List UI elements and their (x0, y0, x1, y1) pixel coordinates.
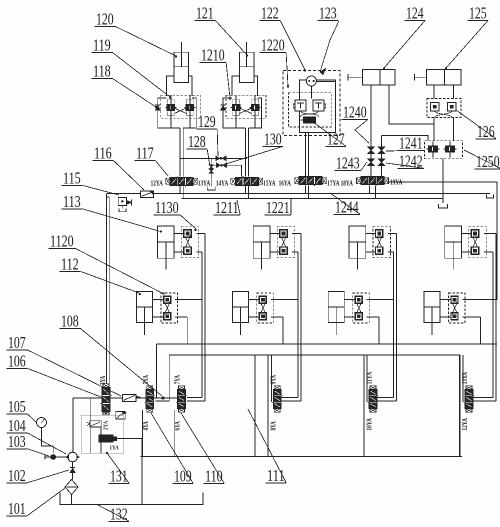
wire cylinder to pack (440, 298, 451, 300)
wire col1 valve drains (141, 410, 143, 456)
valve pack row-A col2 (277, 227, 295, 258)
wire branch to 1250 (382, 136, 429, 141)
svg-text:124: 124 (406, 4, 424, 23)
svg-text:102: 102 (8, 466, 26, 485)
wire col1 valve feeds (187, 396, 202, 398)
wire right bypass (255, 98, 262, 128)
valve pack 118 dual pilot-operated check (161, 95, 201, 118)
svg-text:9YA: 9YA (269, 375, 278, 385)
cylinder row-A col4 (445, 226, 462, 258)
solenoid valve 3YA (101, 384, 112, 416)
svg-text:1221: 1221 (266, 198, 290, 217)
svg-text:6YA: 6YA (173, 421, 182, 431)
wire col3 valve feeds (377, 396, 394, 398)
svg-text:117: 117 (136, 144, 154, 163)
wire cylinder to pack (174, 232, 184, 234)
relief valve 107 (123, 394, 136, 401)
shuttle valve (216, 156, 220, 161)
wire 126 to 1250 (433, 118, 435, 141)
svg-text:128: 128 (188, 132, 206, 151)
svg-text:17YA: 17YA (327, 178, 340, 187)
wire gauge stem (42, 428, 54, 454)
wire to valve row (381, 166, 383, 177)
rail pressure main (107, 193, 491, 195)
inner dashed pack of 122 (289, 93, 332, 127)
svg-text:121: 121 (196, 4, 214, 23)
wire valve to rails (179, 186, 181, 194)
solenoid valve 127 (304, 117, 316, 123)
svg-text:1240: 1240 (343, 103, 367, 122)
svg-text:3YA: 3YA (98, 375, 107, 385)
wire (370, 154, 372, 159)
solenoid valve 9YA/8YA (272, 386, 283, 413)
wire pack outputs (388, 232, 397, 234)
svg-text:12YA: 12YA (151, 178, 164, 187)
svg-text:120: 120 (96, 10, 114, 29)
svg-text:1220: 1220 (261, 36, 285, 55)
wire pack outputs down (170, 118, 172, 128)
solenoid valve 7YA/6YA (176, 386, 187, 413)
svg-text:1244: 1244 (335, 198, 359, 217)
wire pack outputs (271, 298, 298, 300)
svg-text:11YA: 11YA (364, 371, 373, 384)
svg-text:18YA: 18YA (341, 178, 354, 187)
valve pack row-B col2 (257, 293, 274, 323)
svg-text:16YA: 16YA (279, 178, 292, 187)
rail bottom return (141, 455, 462, 457)
shuttle valve (216, 163, 220, 168)
cylinder 120 (174, 52, 188, 82)
wire bypass with check valve (158, 98, 171, 128)
shut-off valve 1241 (378, 147, 385, 154)
cylinder row-A col3 (349, 226, 366, 258)
valve pack row-A col1 (1130) (181, 227, 199, 258)
wire cylinder to pack (366, 232, 376, 234)
wire 125 ports down (433, 85, 435, 99)
wire col3 valve drains (363, 355, 365, 456)
cylinder row-B col3 (328, 292, 344, 323)
wire branch line 1241/1242 (381, 136, 383, 148)
svg-text:118: 118 (93, 62, 111, 81)
wire rail1 left end down to 5YA valve (156, 344, 158, 398)
wire pack outputs down (235, 118, 237, 128)
solenoid valve 13YA/12YA (464, 386, 475, 413)
tank drain (439, 204, 448, 208)
svg-text:1250: 1250 (476, 152, 500, 171)
wire 115 drain (121, 206, 123, 209)
wire col2 valve feeds (281, 396, 298, 398)
solenoid block 1YA (99, 435, 113, 442)
svg-text:1210: 1210 (201, 46, 225, 65)
cylinder row-A col1 (113) (157, 226, 174, 258)
svg-text:12YA: 12YA (460, 418, 469, 431)
wire feeders down (204, 233, 206, 400)
motor 103 (50, 454, 56, 460)
wire filter to tank (71, 495, 73, 505)
wire 124 left port down (370, 85, 372, 147)
shut-off valve 1242 (378, 159, 385, 166)
valve pack row-A col3 (373, 227, 391, 258)
solenoid valve 5YA/4YA (144, 386, 155, 413)
check valve (221, 106, 226, 111)
hand pump 123 circle (306, 76, 316, 86)
wire pack outputs (462, 298, 493, 300)
filter 101 (65, 480, 78, 495)
wire cylinder to pack (248, 298, 259, 300)
rail mid 2 (169, 354, 460, 356)
wire 3YA to 2YA (105, 411, 107, 415)
wire pump outlet (316, 80, 335, 82)
wire motor shaft (56, 456, 67, 458)
svg-text:15YA: 15YA (263, 178, 276, 187)
shut-off valve 1243 (368, 159, 375, 166)
wire col4 valve feeds (473, 396, 493, 398)
check valve (155, 106, 160, 111)
wire 2YA down (100, 427, 102, 453)
wire rail2 left end down to 5YA valve (155, 355, 169, 401)
valve pack row-B col4 (448, 293, 465, 323)
wire right bypass (190, 98, 197, 128)
wire left main down (106, 194, 108, 388)
wire cylinder to pack (462, 232, 472, 234)
wire cylinder ports (167, 76, 175, 96)
cylinder 125 (427, 69, 462, 85)
wire valve to rails (244, 186, 246, 194)
wire pack outputs (196, 232, 205, 234)
wire crossing lines (301, 111, 319, 118)
wire 1YA drain to tank (117, 439, 142, 505)
wire valve to rails (305, 185, 307, 193)
flow control valve 116 (141, 191, 154, 198)
wire feeders down (300, 233, 302, 400)
wire box right edge (459, 355, 461, 456)
svg-text:106: 106 (8, 352, 26, 371)
svg-text:116: 116 (94, 144, 112, 163)
svg-text:1243: 1243 (336, 154, 360, 173)
svg-text:1211: 1211 (215, 198, 239, 217)
pilot valve 2YA (90, 421, 102, 427)
pilot check valve left (295, 100, 306, 111)
wire pack outputs (484, 232, 496, 234)
svg-text:123: 123 (319, 4, 337, 23)
solenoid valve 12YA/13YA (166, 178, 171, 184)
svg-text:1YA: 1YA (110, 446, 120, 452)
node junction 108 (162, 397, 165, 400)
rail return main (182, 198, 444, 200)
svg-text:103: 103 (8, 432, 26, 451)
relief valve 115 (118, 197, 126, 205)
wire pump down into block (310, 86, 312, 99)
tank drain right end (487, 195, 494, 198)
solenoid valve 16YA/17YA (295, 178, 300, 184)
svg-text:107: 107 (8, 333, 26, 352)
valve pack 1210 dual pilot-operated check (226, 95, 266, 118)
wire line 129 (180, 157, 248, 159)
wire 19YA output right (388, 182, 498, 299)
wire pack outputs (175, 298, 202, 300)
valve pack 1250 (425, 141, 463, 159)
node leader dots (175, 55, 177, 57)
shut-off valve 1240 (368, 147, 375, 154)
wire to valve row (370, 166, 372, 177)
wire col2 valve drains (267, 355, 269, 456)
manifold block 122 (299, 80, 335, 133)
enclosure 131 box (81, 415, 124, 453)
wire feeders down (396, 233, 398, 400)
svg-text:115: 115 (63, 169, 81, 188)
svg-text:8YA: 8YA (269, 421, 278, 431)
svg-text:13YA: 13YA (460, 371, 469, 384)
wire pack outputs (292, 232, 301, 234)
cylinder row-A col2 (253, 226, 270, 258)
svg-text:112: 112 (61, 255, 79, 274)
svg-text:113: 113 (63, 192, 81, 211)
wire col4 valve drains (459, 355, 461, 456)
svg-text:132: 132 (110, 505, 128, 524)
solenoid valve 11YA/10YA (368, 386, 379, 413)
svg-text:1130: 1130 (155, 198, 179, 217)
valve pack 126 dual check (427, 99, 461, 118)
valve pack row-B col3 (353, 293, 370, 323)
svg-text:105: 105 (8, 397, 26, 416)
svg-text:10YA: 10YA (364, 418, 373, 431)
cylinder row-B col1 (112) (137, 292, 153, 323)
svg-text:2YA: 2YA (104, 420, 110, 430)
svg-text:13YA: 13YA (198, 178, 211, 187)
rail mid 1 (157, 343, 497, 345)
svg-text:101: 101 (8, 499, 26, 518)
enclosure 1220 dashed box (283, 71, 340, 136)
wire 122 outputs down (305, 133, 307, 177)
solenoid valve 14YA/15YA (231, 178, 236, 184)
rail pump pressure (73, 397, 177, 399)
cylinder row-B col2 (232, 292, 248, 323)
svg-text:122: 122 (261, 4, 279, 23)
tank drain (207, 187, 215, 191)
wire cylinder ports (232, 76, 240, 96)
wire 124 right port (389, 85, 434, 124)
wire cylinder to pack (270, 232, 280, 234)
cylinder row-B col4 (424, 292, 440, 323)
wire cylinder to pack (153, 298, 164, 300)
svg-text:125: 125 (469, 4, 487, 23)
svg-text:119: 119 (93, 36, 111, 55)
pilot check valve right (313, 100, 324, 111)
svg-text:7YA: 7YA (173, 375, 182, 385)
solenoid valve 18YA/19YA (357, 178, 362, 184)
valve pack row-A col4 (469, 227, 487, 258)
wire 1250 output to tank (442, 159, 444, 203)
svg-text:129: 129 (198, 112, 216, 131)
svg-text:108: 108 (61, 312, 79, 331)
svg-text:1241: 1241 (399, 134, 423, 153)
wire (381, 154, 383, 159)
valve pack row-B col1 (1120) (161, 293, 178, 323)
check valve 102 (72, 462, 74, 479)
wire bypass with check valve (223, 98, 236, 128)
cylinder 121 (240, 52, 254, 82)
wire line 130 (213, 164, 242, 166)
wire feeders down (495, 233, 497, 400)
pilot relief valve (116, 411, 126, 419)
svg-text:1120: 1120 (50, 232, 74, 251)
svg-text:130: 130 (264, 130, 282, 149)
wire cylinder to pack (344, 298, 355, 300)
svg-text:14YA: 14YA (216, 178, 229, 187)
pump 104 (68, 452, 78, 462)
tank 132 (60, 493, 203, 505)
cylinder 124 (363, 69, 395, 85)
wire valve to rails (369, 185, 371, 193)
wire pump to rail (72, 398, 74, 452)
wire box left edge (254, 355, 256, 456)
wire drain with valves (210, 158, 212, 186)
pressure gauge 105 (37, 418, 47, 428)
wire pack outputs (367, 298, 394, 300)
